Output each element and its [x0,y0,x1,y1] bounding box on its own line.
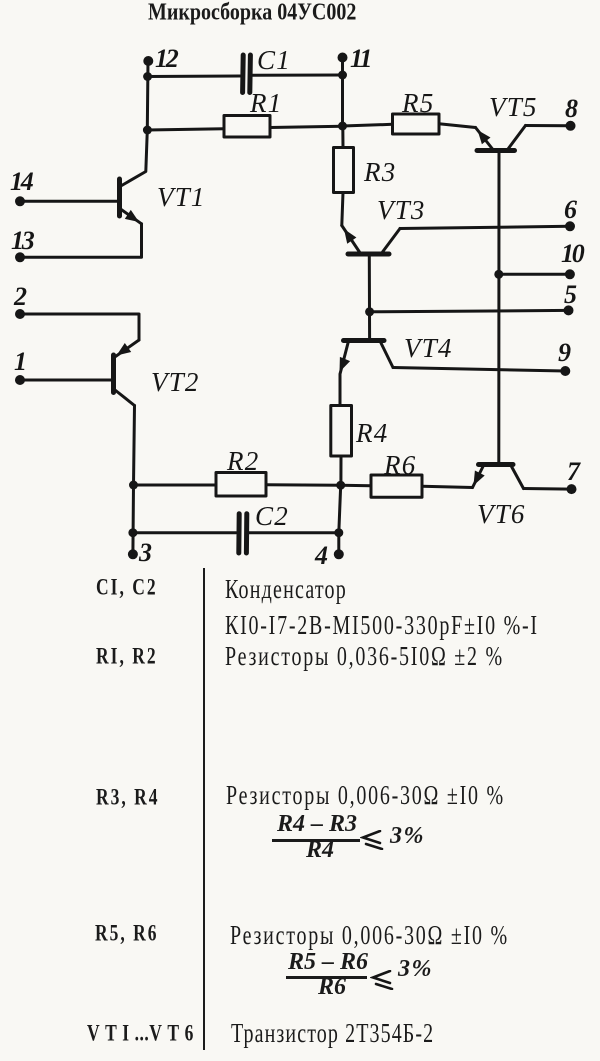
svg-text:VT5: VT5 [489,92,538,122]
svg-text:9: 9 [558,338,571,367]
svg-text:11: 11 [350,44,370,73]
wire R6 right lead to VT6 emitter [422,486,473,487]
svg-text:12: 12 [155,44,179,73]
wire pin1 to VT2 base [20,379,112,382]
pin 14 dot [15,196,25,206]
junction C2 right [334,528,343,537]
transistor VT5 [476,126,526,151]
transistor VT3 [342,226,400,255]
junction R1 right [338,122,347,131]
pin 6 dot [565,221,575,231]
wire junction R2R4R6 down to C2 node and pin4 [339,485,341,554]
svg-text:8: 8 [565,94,578,123]
svg-text:10: 10 [561,239,585,268]
wire VT6 collector to pin7 [524,487,572,491]
resistor R3 [334,148,354,193]
formula (R5-R6)/R6 <= 3% [288,950,368,974]
wire pin5 [370,310,569,311]
wire R6 left lead [341,484,371,488]
title [148,0,356,27]
wire C1 right lead [251,74,343,77]
transistor VT1 [120,179,142,224]
resistor R6 [371,475,422,497]
wire R5 right lead to VT5 emitter [439,124,476,128]
pin 13 dot [15,252,25,262]
pin 3 dot [128,549,138,559]
svg-text:C1: C1 [257,45,291,75]
wire R5 left lead [343,124,393,126]
wire base rail VT5 to VT6 [497,153,500,463]
wire node11 down to R-junction [341,58,344,127]
pin 7 dot [567,484,577,494]
wire R2 leads [134,483,341,486]
svg-text:VT2: VT2 [151,367,200,397]
svg-text:5: 5 [564,280,577,309]
svg-text:VT6: VT6 [477,499,526,529]
node 12 dot [143,56,153,66]
transistor VT2 [114,340,140,406]
junction R1 left [143,126,152,135]
pin 4 dot [334,549,344,559]
svg-text:14: 14 [10,167,34,196]
wire VT1 emitter to pin13 [20,224,142,257]
junction VT2 collector R2 [129,481,138,490]
svg-text:2: 2 [13,282,27,311]
junction C1 left [143,72,152,81]
wire VT2 collector down to pin3 [133,406,135,555]
junction VT3 VT4 base [365,307,374,316]
table divider line [203,568,205,1050]
node 11 dot [338,53,348,63]
svg-text:R5: R5 [401,88,434,118]
svg-text:C2: C2 [255,501,289,531]
junction C1 right [338,71,347,80]
svg-text:R3: R3 [363,157,396,187]
svg-text:3: 3 [138,538,152,566]
wire VT4 collector to pin9 [393,368,565,372]
wire VT5 collector to pin8 [526,124,571,127]
wire C2 left lead [133,531,236,534]
wire R1 leads [147,126,342,130]
wire C1 left lead [148,75,240,79]
svg-text:R4: R4 [355,418,388,448]
capacitor C2 [239,514,247,553]
wire R3 junction to VT3 emitter [342,126,343,226]
wire VT3 collector to pin6 [400,226,570,228]
svg-text:R6: R6 [383,450,416,480]
svg-text:7: 7 [567,457,581,486]
pin 9 dot [560,366,570,376]
svg-text:R1: R1 [249,88,282,118]
junction R2 R4 R6 [336,481,345,490]
transistor VT6 [473,465,524,489]
svg-text:13: 13 [11,226,35,255]
wire VT3-VT4 base link [368,256,371,339]
table text [96,573,158,601]
junction pin10 rail [494,270,503,279]
svg-text:VT4: VT4 [404,333,453,363]
pin 10 dot [565,269,575,279]
wire R4 bottom lead [339,456,342,485]
wire pin14 to VT1 base [20,200,118,203]
svg-text:6: 6 [564,195,577,224]
pin 1 dot [15,375,25,385]
svg-text:R2: R2 [226,446,259,476]
wire node12 down to VT1 collector [121,61,148,186]
transistor VT4 [340,341,394,406]
svg-text:VT3: VT3 [377,195,426,225]
wire C2 right lead [249,531,339,534]
pin 2 dot [15,309,25,319]
junction C2 left [128,528,137,537]
svg-text:1: 1 [14,347,25,376]
resistor R1 [224,116,270,138]
pin 8 dot [566,121,576,131]
pin 5 dot [564,305,574,315]
resistor R4 [331,406,352,457]
svg-text:4: 4 [314,541,328,566]
resistor R5 [393,114,440,134]
wire pin2 to VT2 emitter [20,314,139,340]
wire pin10 tap [499,273,570,276]
resistor R2 [216,473,266,497]
formula (R4-R3)/R4 <= 3% [277,812,357,836]
svg-text:VT1: VT1 [157,182,206,212]
capacitor C1 [243,55,251,93]
